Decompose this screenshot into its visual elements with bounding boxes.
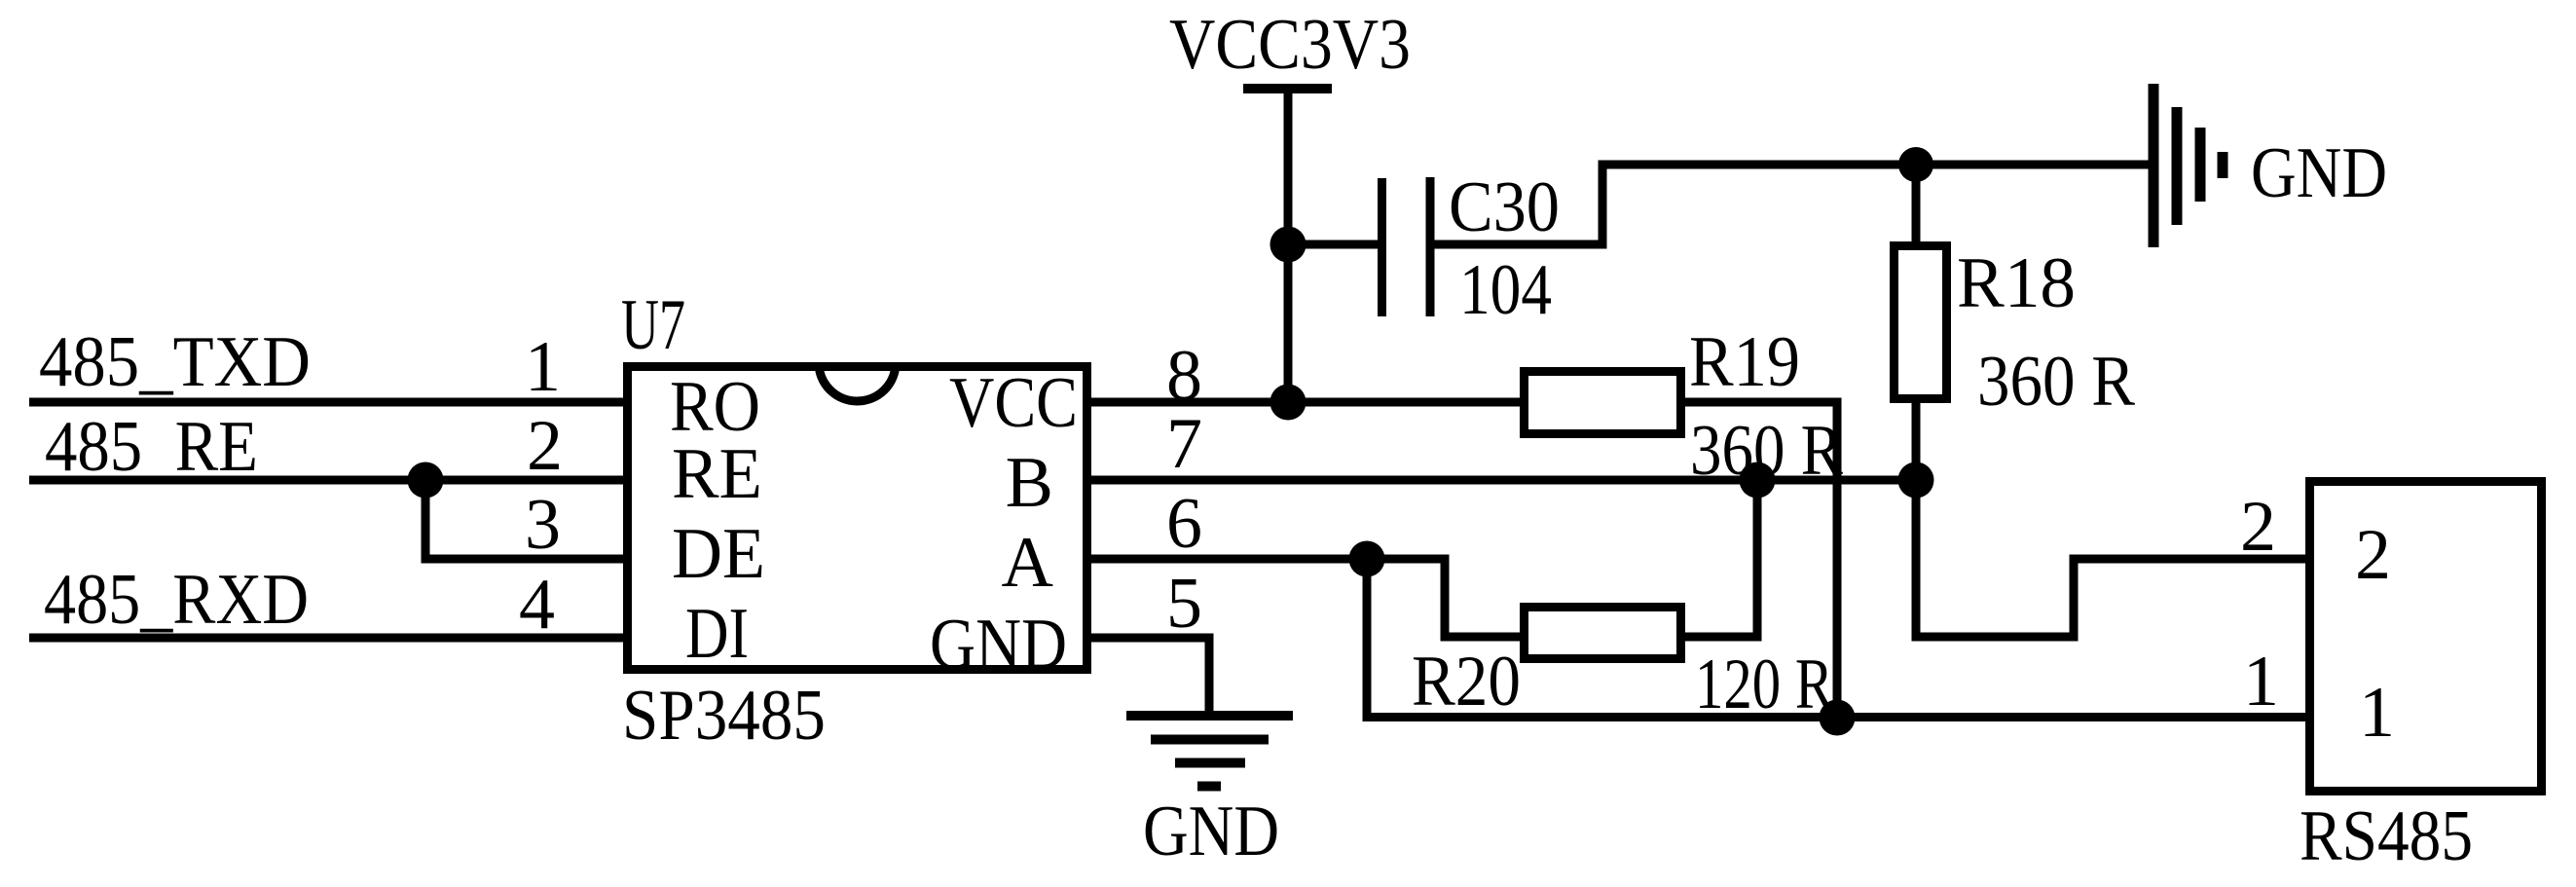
wire B to RS485 pin 2 [1916, 480, 2310, 637]
svg-text:7: 7 [1166, 404, 1202, 484]
svg-text:C30: C30 [1449, 167, 1560, 247]
wire 485_TXD to pin 1 [29, 398, 627, 407]
wire A down to net 1 [1363, 559, 1372, 721]
svg-text:1: 1 [525, 327, 561, 407]
svg-text:120 R: 120 R [1695, 645, 1834, 724]
svg-text:4: 4 [519, 565, 555, 645]
resistor R18 body [1895, 246, 1947, 399]
svg-text:DE: DE [672, 514, 765, 594]
junction GND net / R18 [1898, 147, 1933, 182]
svg-text:SP3485: SP3485 [622, 676, 826, 756]
op-amp U7 IC body SP3485 [628, 367, 1087, 670]
wire 485_RXD to pin 4 [29, 634, 627, 643]
wire C30 right plate to GND net [1434, 165, 2149, 244]
svg-text:485_RE: 485_RE [45, 407, 258, 487]
resistor R20 body [1525, 608, 1681, 659]
ground symbol top right [2153, 84, 2223, 247]
svg-text:5: 5 [1166, 564, 1202, 644]
svg-text:RE: RE [672, 434, 762, 514]
svg-text:3: 3 [525, 485, 561, 565]
svg-text:R18: R18 [1957, 243, 2076, 323]
svg-text:6: 6 [1166, 484, 1202, 564]
wire net 1 to RS485 pin 1 [1367, 713, 2310, 721]
svg-text:GND: GND [930, 605, 1067, 684]
svg-text:R19: R19 [1689, 322, 1800, 402]
junction VCC/C30 [1270, 227, 1306, 263]
ground symbol bottom [1126, 716, 1293, 787]
capacitor C30 right plate [1426, 177, 1435, 316]
power VCC3V3 bar [1243, 84, 1332, 93]
junction VCC/pin8 [1270, 385, 1306, 421]
wire R18 to B line [1912, 399, 1921, 480]
svg-text:DI: DI [685, 594, 749, 674]
svg-text:485_RXD: 485_RXD [44, 560, 309, 640]
junction RE/DE [408, 462, 444, 499]
svg-text:VCC3V3: VCC3V3 [1169, 5, 1411, 85]
resistor R19 body [1525, 372, 1681, 434]
wire GND net down to R18 [1912, 165, 1921, 246]
junction B / R20 [1740, 462, 1776, 499]
svg-text:B: B [1006, 443, 1053, 523]
wire VCC3V3 down to pin 8 [1284, 89, 1293, 402]
wire pin 8 to R19 [1087, 398, 1524, 407]
svg-text:A: A [1002, 523, 1053, 603]
svg-text:RS485: RS485 [2300, 796, 2473, 876]
svg-text:1: 1 [2243, 642, 2279, 721]
wire 485_RE to pin 2 [29, 476, 627, 485]
svg-text:1: 1 [2359, 673, 2395, 753]
junction A / net 1 [1349, 541, 1385, 577]
U7 notch [819, 363, 896, 402]
svg-text:2: 2 [2355, 515, 2391, 595]
svg-text:GND: GND [2251, 133, 2387, 213]
svg-text:104: 104 [1459, 250, 1552, 330]
svg-text:360 R: 360 R [1977, 342, 2136, 422]
svg-text:2: 2 [527, 406, 563, 486]
connector RS485 body [2310, 482, 2542, 792]
wire VCC to C30 left plate [1288, 240, 1378, 249]
wire pin 6 A line [1087, 559, 1524, 637]
wire pin 5 to ground [1087, 638, 1209, 716]
wire R19 right to net 1 [1685, 402, 1837, 718]
capacitor C30 left plate [1378, 178, 1386, 316]
junction net1 / R19 [1820, 700, 1856, 736]
svg-text:R20: R20 [1412, 642, 1521, 721]
svg-text:VCC: VCC [949, 363, 1078, 443]
wire RE junction to pin 3 [425, 480, 627, 559]
svg-text:GND: GND [1143, 792, 1279, 871]
wire R20 right up to B [1685, 480, 1757, 637]
junction B / R18 [1898, 462, 1934, 499]
svg-text:2: 2 [2240, 487, 2276, 567]
svg-text:485_TXD: 485_TXD [39, 322, 311, 402]
svg-text:U7: U7 [621, 285, 685, 365]
wire pin 7 B line [1087, 476, 1916, 485]
